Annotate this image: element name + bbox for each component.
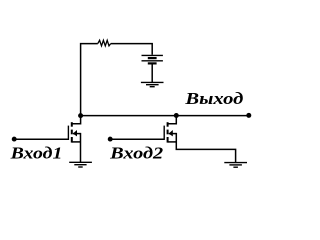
node: input 2 terminal: [108, 137, 113, 142]
node: junction VT1 drain: [78, 113, 83, 118]
svg-text:Выход: Выход: [184, 89, 243, 108]
wire: VT1 source down to ground: [80, 133, 82, 162]
wire: input 1 to VT1 gate: [14, 138, 68, 140]
wire: input 2 to VT2 gate: [110, 138, 164, 140]
wire: resistor to battery top: [111, 44, 153, 55]
battery GB1: [142, 55, 163, 63]
resistor R1: [98, 40, 111, 46]
ground (VT1 source): [69, 162, 92, 167]
transistor VT1: [68, 122, 80, 142]
wire: VT2 drain stub: [168, 116, 177, 124]
ground (battery): [141, 82, 164, 86]
wire: output rail: [81, 115, 249, 117]
transistor VT2: [164, 122, 176, 142]
wire: VT2 source to ground: [176, 133, 235, 163]
wire: VT1 drain stub up left riser and top rail to resistor: [72, 44, 98, 124]
svg-text:Вход2: Вход2: [109, 144, 163, 163]
wire: battery minus to ground: [151, 63, 153, 82]
ground (VT2 source): [224, 163, 247, 168]
svg-text:Вход1: Вход1: [9, 144, 62, 163]
node: junction VT2 drain: [174, 113, 179, 118]
node: input 1 terminal: [12, 137, 17, 142]
node: output terminal: [246, 113, 251, 118]
